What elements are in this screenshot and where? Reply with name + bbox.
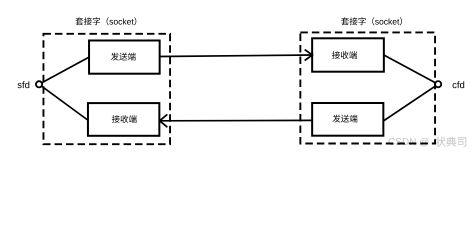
- left receive box 接收端: [88, 103, 159, 136]
- label cfd: [453, 81, 465, 88]
- cfd node circle: [435, 81, 441, 87]
- watermark CSDN @状典司: [389, 138, 429, 147]
- wire: left send to right receive (arrow right): [160, 50, 313, 61]
- label 接收端 (left): [112, 115, 137, 123]
- label 发送端 (right): [333, 115, 358, 123]
- label 接收端 (right): [332, 51, 357, 59]
- left send box 发送端: [89, 41, 160, 74]
- wire: right send box to cfd node: [383, 84, 438, 121]
- wire: sfd node to left receive box: [39, 84, 88, 120]
- right socket dashed box: [300, 32, 435, 143]
- sfd node circle: [36, 81, 42, 87]
- right receive box 接收端: [312, 38, 384, 71]
- label sfd: [18, 81, 30, 88]
- left socket group title 套接字（socket）: [75, 17, 136, 25]
- right socket group title 套接字（socket）: [341, 17, 402, 25]
- left socket dashed box: [43, 34, 170, 144]
- wire: sfd node to left send box: [39, 57, 89, 84]
- wire: right send to left receive (arrow left): [159, 114, 312, 127]
- right send box 发送端: [312, 103, 383, 136]
- label 发送端 (left): [111, 53, 136, 61]
- wire: right receive box to cfd node: [384, 55, 438, 84]
